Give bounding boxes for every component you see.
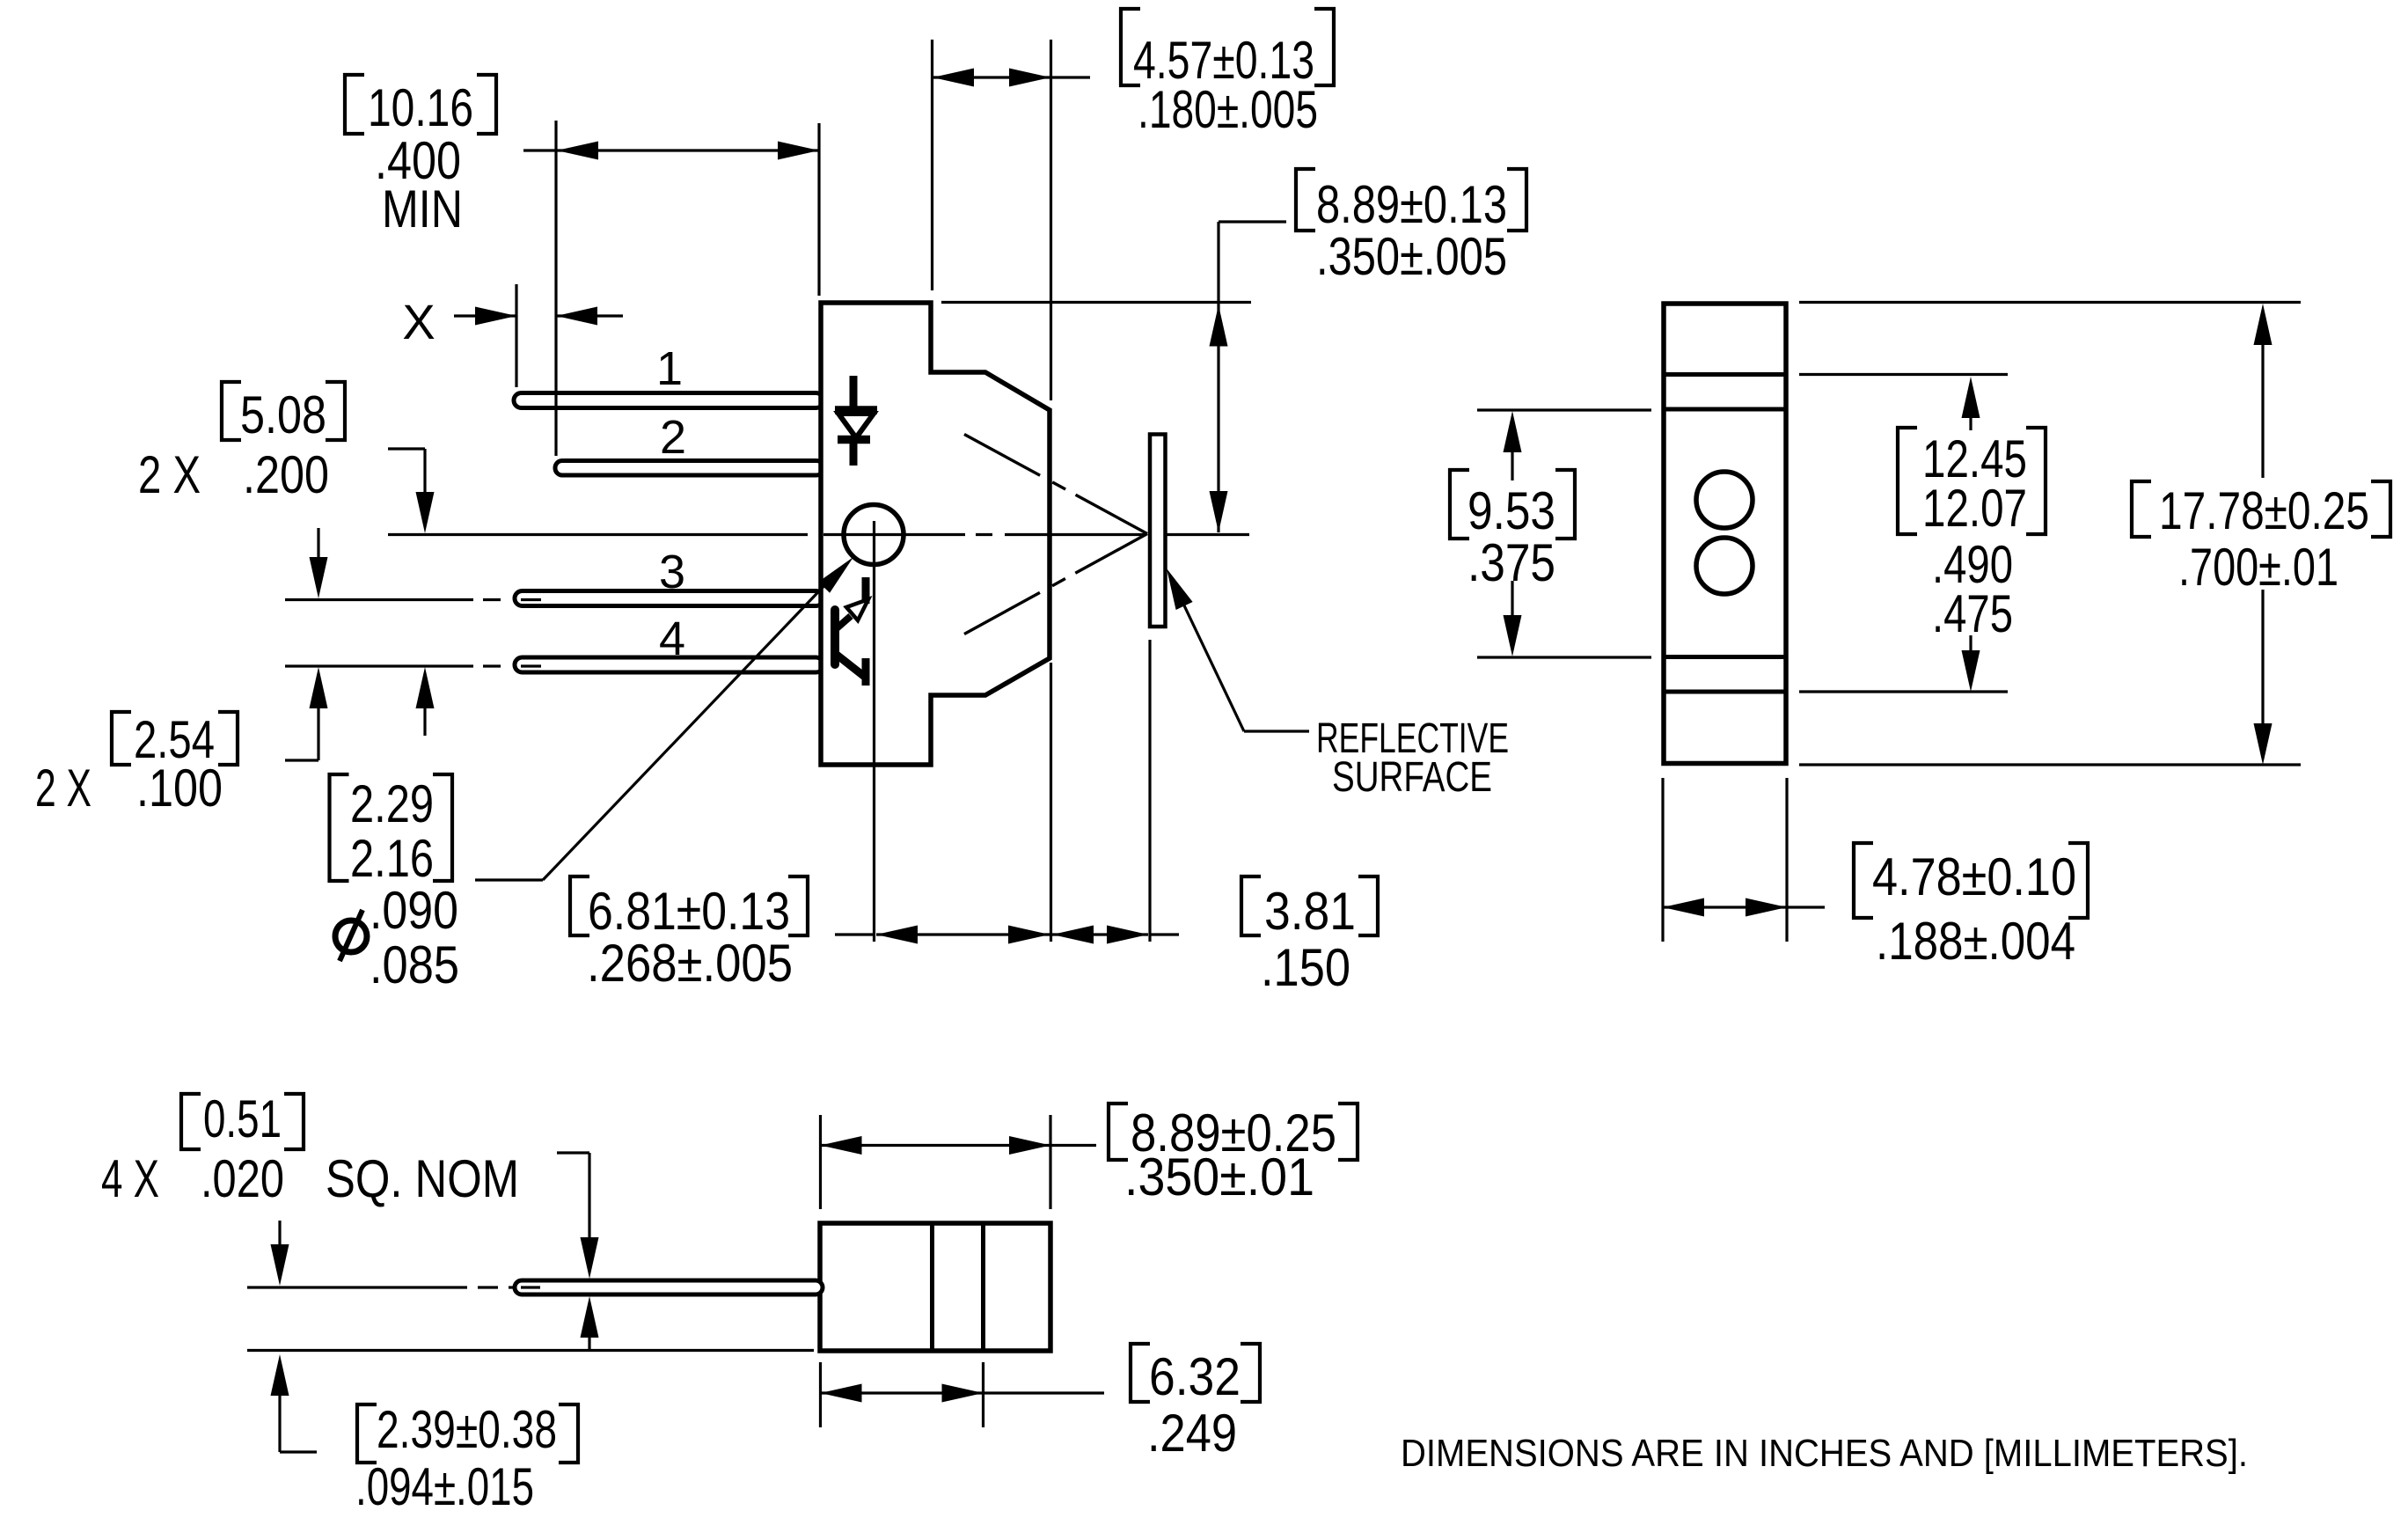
- svg-text:5.08: 5.08: [240, 385, 326, 444]
- dimension [12.45 12.07] .490 .475 text: [1898, 428, 2046, 643]
- sensor body outline (side view): [821, 303, 1050, 765]
- svg-text:.150: .150: [1261, 938, 1350, 997]
- svg-text:.375: .375: [1467, 533, 1555, 592]
- pin 2 (cathode lead): [555, 461, 823, 476]
- svg-text:4 X: 4 X: [101, 1149, 159, 1208]
- units note: [1401, 1432, 2248, 1475]
- svg-text:2: 2: [660, 411, 686, 464]
- dimension 2X .100 arrows: [285, 528, 328, 760]
- svg-text:6.81±0.13: 6.81±0.13: [588, 882, 790, 941]
- svg-text:1: 1: [656, 342, 683, 395]
- phototransistor Q1 symbol: [835, 577, 868, 686]
- svg-text:.268±.005: .268±.005: [587, 934, 793, 993]
- svg-text:.090: .090: [370, 881, 458, 940]
- dimension [8.89±0.25] .350 lines: [821, 1115, 1097, 1209]
- dimension [2.54] 2X .100 text: [35, 710, 238, 818]
- reflective surface extension line: [1148, 640, 1151, 942]
- dimension [4.57±0.13] .180±.005 text: [1121, 9, 1334, 139]
- dimension [10.16] .400 MIN text: [345, 75, 496, 238]
- upper light ray (dashed): [964, 435, 1147, 534]
- dimension [12.45 12.07] lines: [1799, 375, 2008, 693]
- lower light ray (dashed): [964, 534, 1147, 634]
- package bottom extension line: [247, 1349, 814, 1352]
- dimension [6.32] .249 text: [1131, 1344, 1260, 1463]
- dimension .400 MIN lines: [516, 121, 819, 456]
- dimension [6.32] .249 lines: [821, 1362, 1105, 1427]
- detector aperture circle: [1696, 538, 1753, 594]
- svg-text:SQ. NOM: SQ. NOM: [326, 1149, 519, 1208]
- dimension [9.53] .375 text: [1450, 470, 1575, 592]
- svg-text:9.53: 9.53: [1467, 481, 1555, 540]
- body top extension line: [941, 301, 1251, 304]
- REFLECTIVE SURFACE label: [1316, 715, 1509, 801]
- svg-text:X: X: [402, 294, 435, 349]
- svg-text:2.39±0.38: 2.39±0.38: [377, 1400, 557, 1459]
- aperture circle (lens): [844, 505, 904, 565]
- pin label 3: [659, 546, 685, 598]
- top groove lines: [1664, 375, 1786, 410]
- svg-text:DIMENSIONS ARE IN INCHES AND [: DIMENSIONS ARE IN INCHES AND [MILLIMETER…: [1401, 1432, 2248, 1475]
- pin 3 centerline: [285, 598, 541, 601]
- reflective surface leader: [1167, 568, 1309, 731]
- svg-text:MIN: MIN: [382, 180, 463, 238]
- svg-text:2.29: 2.29: [350, 774, 434, 833]
- svg-text:4: 4: [659, 612, 685, 665]
- svg-text:.700±.01: .700±.01: [2178, 538, 2338, 597]
- svg-text:2 X: 2 X: [138, 445, 201, 504]
- dimension [4.57] .180 lines: [933, 40, 1091, 400]
- dimension [3.81] .150 lines: [1052, 926, 1179, 944]
- circle center extension line: [873, 521, 875, 942]
- svg-text:.180±.005: .180±.005: [1138, 80, 1318, 139]
- svg-text:.188±.004: .188±.004: [1876, 912, 2075, 971]
- dimension [6.81] .268 lines: [835, 926, 1050, 944]
- pin 4 (emitter lead): [515, 657, 823, 672]
- diameter symbol and .090 .085 text: [335, 881, 459, 994]
- dimension [2.39] .094 arrows: [271, 1221, 318, 1452]
- pin label 2: [660, 411, 686, 464]
- dimension [6.81±0.13] .268±.005 text: [570, 876, 808, 993]
- svg-text:2 X: 2 X: [35, 759, 91, 818]
- dimension [2.39±0.38] .094±.015 text: [355, 1400, 578, 1516]
- svg-text:4.78±0.10: 4.78±0.10: [1872, 847, 2076, 906]
- svg-text:.094±.015: .094±.015: [355, 1457, 534, 1516]
- dimension X lines: [454, 307, 623, 326]
- svg-text:10.16: 10.16: [368, 78, 473, 137]
- dimension X label: [402, 294, 435, 349]
- dimension 4X .020 SQ leader: [557, 1153, 599, 1351]
- svg-text:6.32: 6.32: [1149, 1347, 1241, 1406]
- svg-text:.350±.01: .350±.01: [1124, 1148, 1314, 1206]
- dimension [0.51] 4X .020 SQ. NOM text: [101, 1089, 519, 1208]
- svg-text:12.07: 12.07: [1922, 479, 2027, 538]
- svg-text:.100: .100: [136, 759, 223, 818]
- bottom view step lines: [933, 1223, 984, 1351]
- optical axis centerline: [388, 533, 1249, 536]
- svg-text:.249: .249: [1147, 1404, 1237, 1463]
- front face extension line: [1050, 663, 1052, 942]
- dimension [3.81] .150 text: [1241, 876, 1378, 997]
- dimension [4.78] .188 lines: [1663, 778, 1825, 942]
- LED D1 symbol (emitter diode): [835, 376, 877, 466]
- svg-text:.350±.005: .350±.005: [1316, 227, 1507, 286]
- pin label 1: [656, 342, 683, 395]
- svg-text:.085: .085: [370, 935, 459, 994]
- dimension [8.89±0.13] .350±.005 text: [1296, 169, 1526, 286]
- dimension [8.89±0.25] .350±.01 text: [1109, 1104, 1358, 1206]
- pin label 4: [659, 612, 685, 665]
- package outline (bottom view): [820, 1223, 1050, 1351]
- pin 4 centerline: [285, 664, 541, 667]
- dimension [9.53] .375 lines: [1477, 410, 1651, 657]
- package outline (front view): [1664, 304, 1786, 764]
- bottom groove lines: [1664, 657, 1786, 693]
- pin 1 (anode lead): [514, 393, 823, 408]
- emitter aperture circle: [1696, 472, 1753, 528]
- bottom view pin centerline: [247, 1286, 540, 1288]
- dimension [2.29 2.16] aperture text: [330, 774, 453, 888]
- dimension [4.78±0.10] .188±.004 text: [1854, 843, 2088, 971]
- svg-text:8.89±0.13: 8.89±0.13: [1316, 175, 1507, 234]
- svg-text:2.16: 2.16: [350, 829, 434, 888]
- dimension [17.78] .700 lines: [1799, 303, 2301, 766]
- dimension [8.89] .350 vertical lines: [1210, 222, 1287, 532]
- svg-text:0.51: 0.51: [203, 1089, 282, 1148]
- svg-text:3.81: 3.81: [1264, 882, 1356, 941]
- reflective surface plate: [1150, 435, 1166, 627]
- svg-text:SURFACE: SURFACE: [1332, 754, 1492, 801]
- svg-text:.020: .020: [201, 1149, 284, 1208]
- svg-text:3: 3: [659, 546, 685, 598]
- dimension [5.08] 2X .200 text: [138, 382, 345, 504]
- dimension [17.78±0.25] .700±.01 text: [2132, 481, 2390, 597]
- svg-text:.200: .200: [243, 445, 329, 504]
- svg-text:17.78±0.25: 17.78±0.25: [2159, 481, 2369, 540]
- bottom view pin lead: [515, 1280, 823, 1294]
- dimension 2X .200 leader and arrows: [388, 449, 435, 736]
- svg-text:.475: .475: [1932, 584, 2013, 643]
- pin 3 (collector lead): [515, 591, 823, 606]
- aperture diameter leader: [475, 557, 853, 880]
